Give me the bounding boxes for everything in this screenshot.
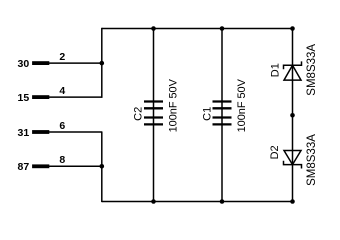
D2 value SM8S33A [306, 134, 318, 186]
svg-text:30: 30 [18, 58, 30, 70]
junction diodes bottom [290, 199, 295, 204]
svg-text:31: 31 [18, 127, 30, 139]
svg-text:SM8S33A: SM8S33A [306, 134, 318, 186]
wire terminal 31 [49, 131, 103, 133]
pin 6 [59, 120, 65, 132]
junction diodes top [290, 26, 295, 31]
svg-text:D2: D2 [269, 145, 281, 159]
wire terminal 30 [49, 62, 102, 64]
label C2 [132, 107, 144, 121]
svg-text:100nF 50V: 100nF 50V [168, 78, 180, 132]
svg-text:2: 2 [59, 51, 65, 63]
label D1 [270, 63, 282, 77]
D1 value SM8S33A [306, 44, 318, 96]
wire terminal 87 [49, 165, 102, 167]
svg-text:SM8S33A: SM8S33A [306, 44, 318, 96]
wire C1 vertical [221, 29, 223, 202]
svg-text:C1: C1 [202, 107, 214, 121]
terminal 31 [18, 127, 50, 139]
junction C2 bottom [151, 199, 156, 204]
junction node 30 [100, 61, 105, 66]
svg-text:6: 6 [59, 120, 65, 132]
capacitor C1 [213, 102, 232, 125]
terminal 15 [18, 92, 50, 104]
junction C1 bottom [220, 199, 225, 204]
C1 value 100nF 50V [236, 78, 248, 132]
pin 2 [59, 51, 65, 63]
pin 8 [59, 154, 65, 166]
svg-text:15: 15 [18, 92, 30, 104]
wire diode chain vertical [292, 29, 294, 202]
diode D1 [284, 61, 302, 80]
svg-text:8: 8 [59, 154, 65, 166]
svg-text:C2: C2 [132, 107, 144, 121]
label D2 [269, 145, 281, 159]
C2 value 100nF 50V [168, 78, 180, 132]
svg-text:100nF 50V: 100nF 50V [236, 78, 248, 132]
wire C2 vertical [153, 29, 155, 202]
svg-text:87: 87 [18, 161, 30, 173]
junction node 87 [100, 164, 105, 169]
diode D2 [284, 151, 302, 169]
wire top rail [102, 28, 293, 30]
junction C2 top [151, 26, 156, 31]
terminal 30 [18, 58, 50, 70]
wire left lower vertical [101, 132, 103, 202]
svg-text:4: 4 [59, 85, 65, 97]
capacitor C2 [144, 102, 163, 125]
pin 4 [59, 85, 65, 97]
wire terminal 15 [49, 96, 103, 98]
wire bottom rail [102, 201, 293, 203]
junction C1 top [220, 26, 225, 31]
svg-text:D1: D1 [270, 63, 282, 77]
terminal 87 [18, 161, 50, 173]
wire left upper vertical [101, 28, 103, 98]
junction diodes middle [290, 113, 295, 118]
label C1 [202, 107, 214, 121]
